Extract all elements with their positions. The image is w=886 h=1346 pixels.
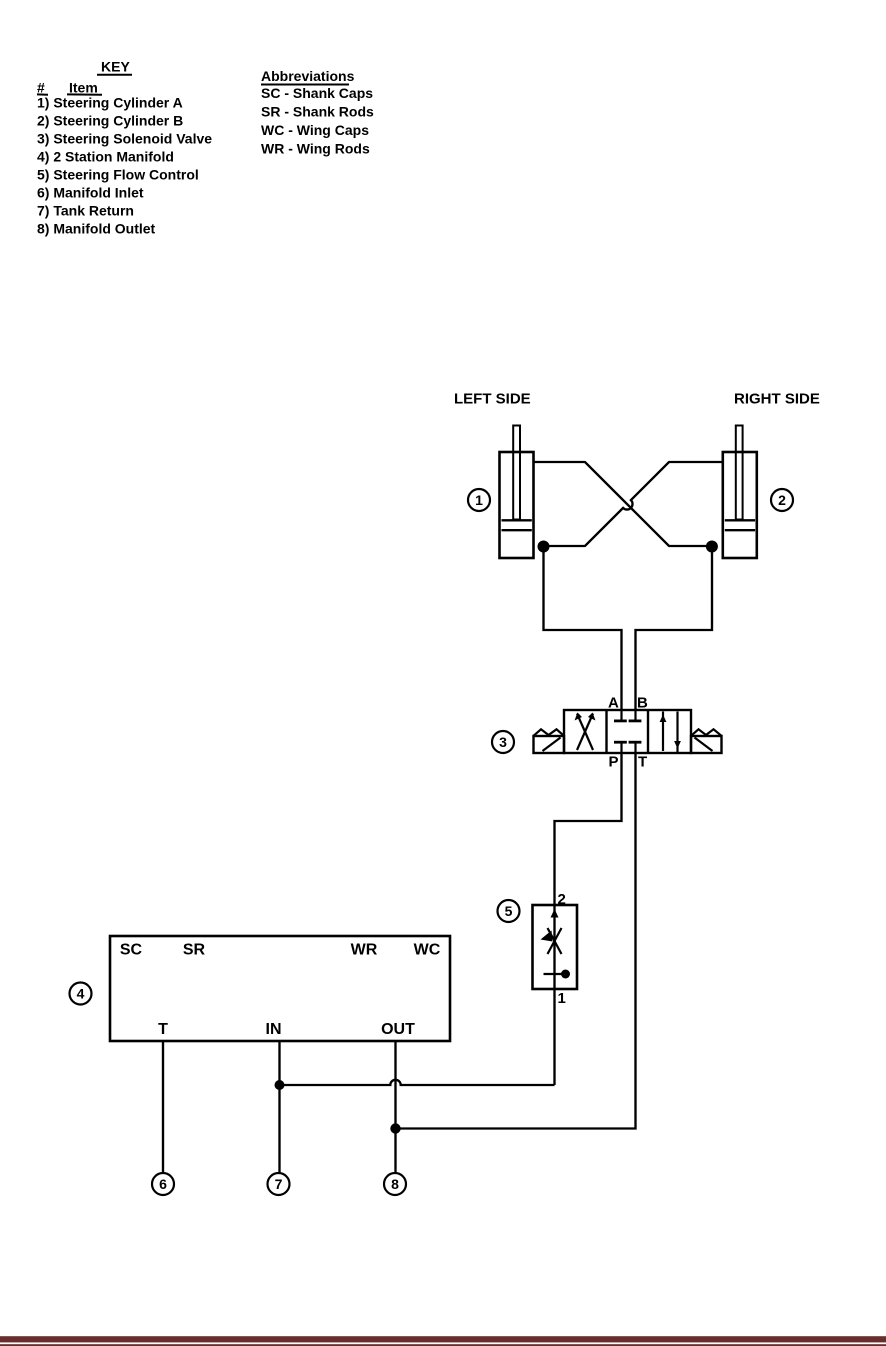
- svg-text:P: P: [609, 754, 619, 771]
- svg-text:7) Tank Return: 7) Tank Return: [37, 202, 134, 218]
- svg-text:7: 7: [275, 1176, 283, 1192]
- svg-text:SC: SC: [120, 942, 143, 959]
- svg-text:5: 5: [505, 903, 513, 919]
- svg-text:SR: SR: [183, 942, 206, 959]
- svg-text:2: 2: [778, 492, 786, 508]
- svg-text:B: B: [637, 695, 648, 712]
- svg-text:WR - Wing Rods: WR - Wing Rods: [261, 141, 370, 157]
- svg-text:2: 2: [558, 891, 566, 908]
- svg-text:5) Steering Flow Control: 5) Steering Flow Control: [37, 166, 199, 182]
- svg-text:SR - Shank Rods: SR - Shank Rods: [261, 104, 374, 120]
- svg-text:3) Steering Solenoid Valve: 3) Steering Solenoid Valve: [37, 130, 212, 146]
- svg-text:OUT: OUT: [381, 1021, 415, 1038]
- svg-text:WC: WC: [414, 942, 441, 959]
- svg-text:6) Manifold Inlet: 6) Manifold Inlet: [37, 184, 144, 200]
- svg-text:8: 8: [391, 1176, 399, 1192]
- svg-text:KEY: KEY: [101, 59, 130, 75]
- svg-text:1) Steering Cylinder A: 1) Steering Cylinder A: [37, 94, 183, 110]
- svg-text:8) Manifold Outlet: 8) Manifold Outlet: [37, 220, 156, 236]
- svg-text:A: A: [608, 695, 619, 712]
- svg-text:Item: Item: [69, 80, 98, 96]
- svg-text:4) 2 Station Manifold: 4) 2 Station Manifold: [37, 148, 174, 164]
- svg-text:LEFT SIDE: LEFT SIDE: [454, 391, 531, 408]
- svg-text:#: #: [37, 80, 45, 96]
- svg-text:1: 1: [558, 990, 566, 1007]
- svg-text:IN: IN: [266, 1021, 282, 1038]
- svg-text:1: 1: [475, 492, 483, 508]
- svg-text:4: 4: [77, 986, 85, 1002]
- svg-text:RIGHT SIDE: RIGHT SIDE: [734, 391, 820, 408]
- svg-text:T: T: [638, 754, 647, 771]
- svg-text:3: 3: [499, 734, 507, 750]
- svg-text:2) Steering Cylinder B: 2) Steering Cylinder B: [37, 112, 183, 128]
- svg-text:SC - Shank Caps: SC - Shank Caps: [261, 85, 373, 101]
- svg-text:T: T: [158, 1021, 168, 1038]
- svg-text:6: 6: [159, 1176, 167, 1192]
- svg-text:WC - Wing Caps: WC - Wing Caps: [261, 122, 369, 138]
- svg-text:WR: WR: [351, 942, 378, 959]
- svg-text:Abbreviations: Abbreviations: [261, 68, 355, 84]
